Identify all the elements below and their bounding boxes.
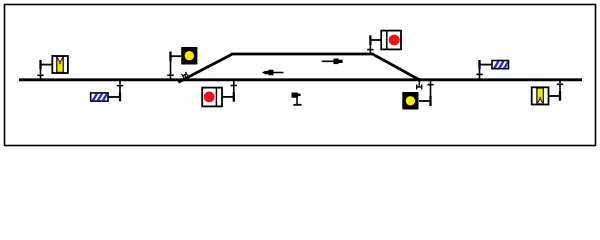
wire right turnout diagonal <box>373 54 421 80</box>
AWS ramp A1 (left, below track) <box>91 81 124 102</box>
wire loop track <box>231 53 374 56</box>
border frame <box>5 5 596 146</box>
arrow left (main line direction) <box>263 70 284 76</box>
stop signal S3 (upper right, above loop, red lamp) <box>367 31 401 54</box>
distant signal D1 (left, above track) <box>37 56 68 79</box>
distant signal D2 (right, below track) <box>532 81 564 105</box>
wire main track <box>19 78 582 81</box>
points mark P1 (left turnout, rotated H) <box>182 72 190 81</box>
shunt signal S4 (right, below track, black box yellow lamp) <box>402 81 433 110</box>
AWS ramp A2 (right, above track) <box>476 60 509 80</box>
arrow right (loop direction) <box>322 59 343 65</box>
points mark P2 (right turnout, H below track) <box>417 78 422 90</box>
stop signal S2 (lower left, below track, red lamp) <box>202 81 237 107</box>
wire left turnout diagonal <box>178 54 232 82</box>
shunt signal S1 (left, above track, black box yellow lamp) <box>167 47 197 79</box>
telephone T1 (centre, below track) <box>292 93 302 105</box>
